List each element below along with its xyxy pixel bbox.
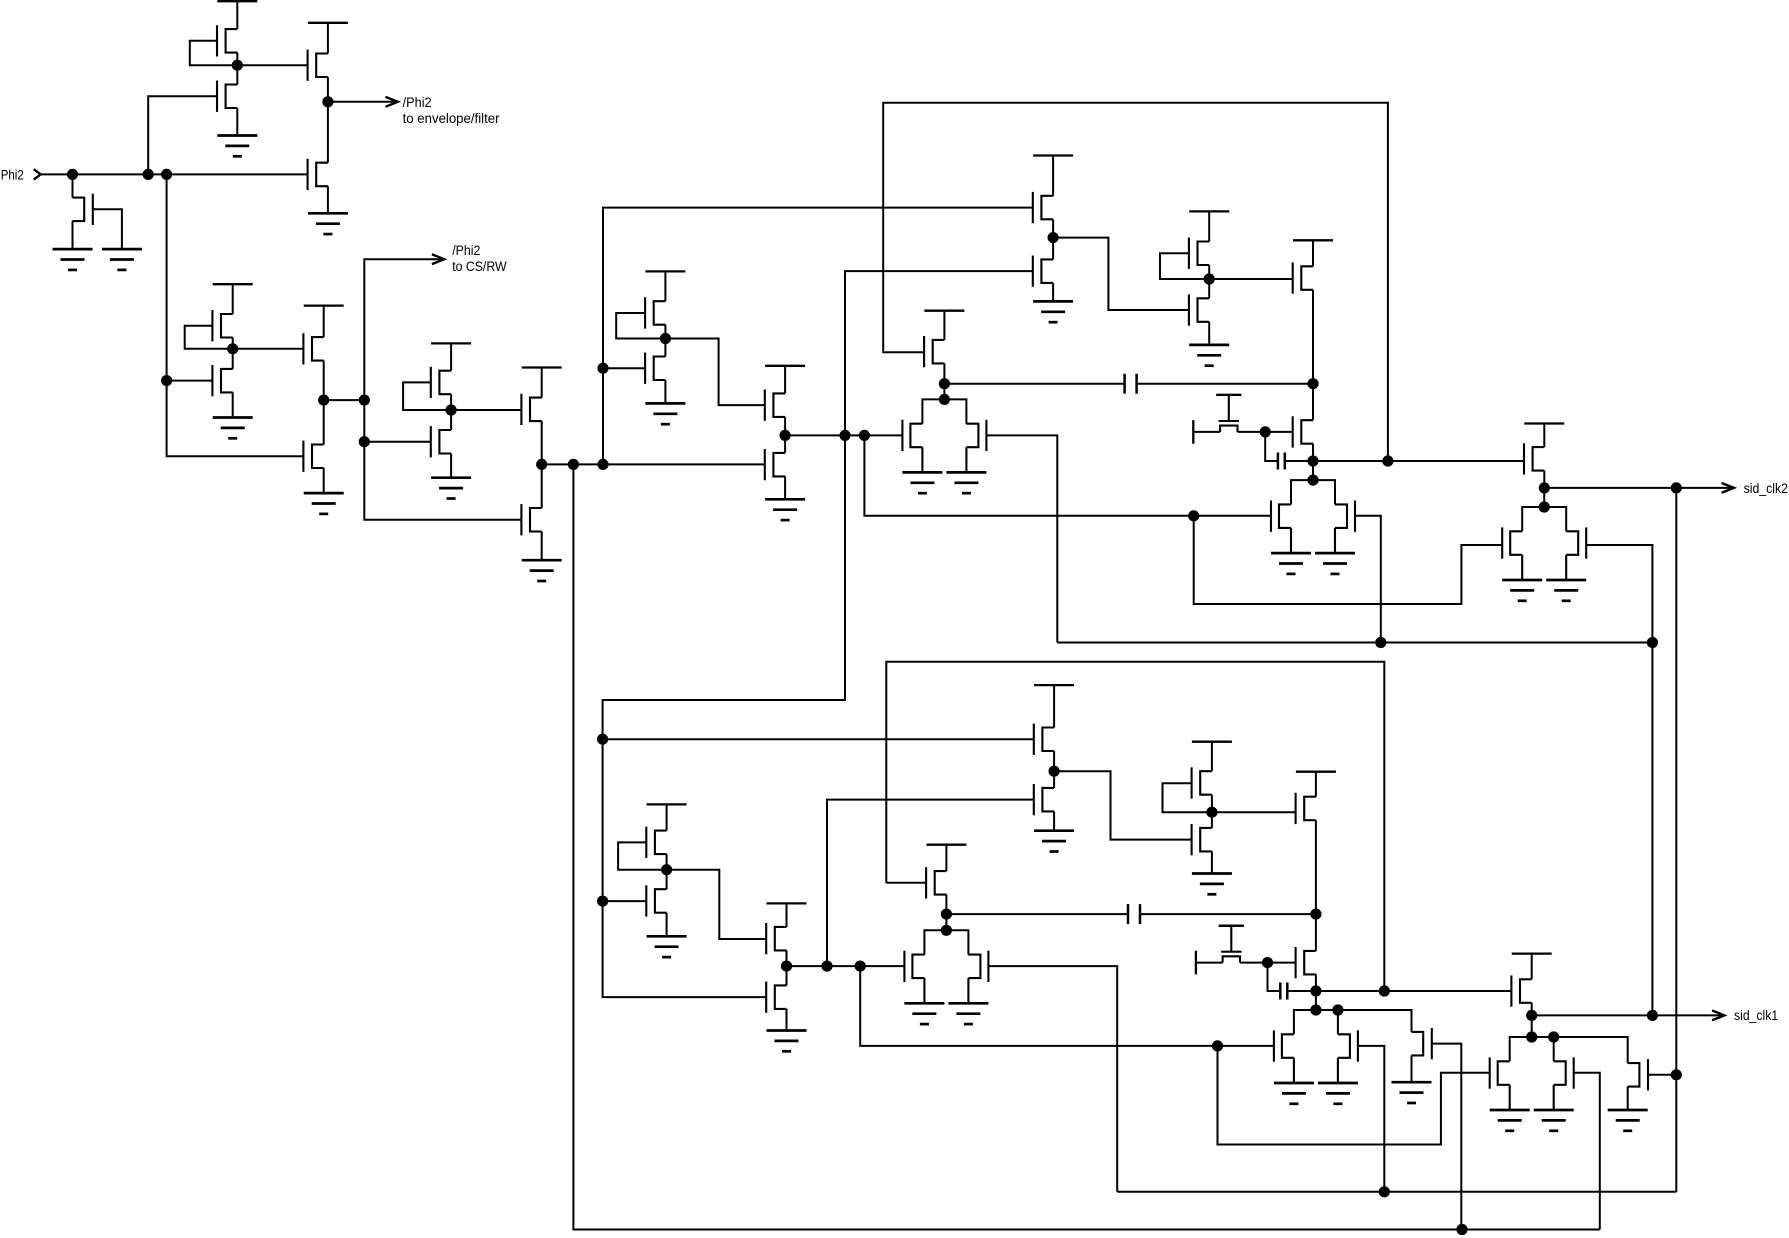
node Phi2-c: [161, 169, 172, 180]
wire pair3pL gate route: [1218, 1046, 1490, 1145]
vdd tick T31p: [1512, 952, 1552, 954]
wire T10 drain: [450, 410, 452, 430]
wire T34 source: [666, 854, 668, 870]
wire T17 drain: [784, 366, 786, 394]
wire X2p to T31p gate: [1316, 990, 1512, 992]
node pair3p ext: [1548, 1031, 1559, 1042]
node Phi2-b: [143, 169, 154, 180]
pair3' drain U-link: [1510, 1037, 1554, 1061]
node X2: [1307, 455, 1318, 466]
ground of pair2'L: [1274, 1083, 1314, 1104]
wire N1p-b riser: [860, 966, 1274, 1046]
wire T20 drain: [943, 311, 945, 340]
transistor pair3'R (right): [1554, 1057, 1574, 1110]
wire to T7 gate: [167, 380, 213, 382]
transistor T16 (depletion load): [645, 297, 665, 328]
transistor T20: [924, 336, 944, 367]
wire sid_clk2 riser down: [1675, 488, 1677, 1192]
wire T22 source: [1052, 283, 1054, 302]
svg-text:sid_clk2: sid_clk2: [1744, 481, 1788, 496]
wire T16 source: [664, 325, 666, 339]
node T16 out: [660, 333, 671, 344]
wire pair3R gate route: [1586, 545, 1652, 1015]
capacitor C2 (bootstrap): [1278, 453, 1285, 470]
wire N1 to pair1 left gate: [785, 434, 902, 436]
wire T12 drain: [450, 343, 452, 370]
node A: [232, 60, 243, 71]
wire cap1 left: [944, 383, 1124, 385]
wire T20 source: [943, 363, 945, 383]
wire sid_clk2 out: [1544, 487, 1732, 489]
transistor T21': [1034, 724, 1054, 755]
capacitor C1: [1125, 374, 1137, 394]
wire N1p to pair1p left gate: [787, 965, 905, 967]
wire T7 source: [232, 392, 234, 417]
node lower-b: [597, 896, 608, 907]
vdd tick T34: [647, 803, 687, 805]
wire pair3 stem: [1543, 488, 1545, 507]
ground T16b: [645, 403, 685, 424]
node pair2p top: [1310, 1004, 1321, 1015]
svg-text:Phi2: Phi2: [1, 167, 24, 183]
transistor T4: [217, 81, 237, 112]
node pair1 top: [939, 394, 950, 405]
gate tick T29: [1216, 394, 1241, 396]
transistor T17: [765, 390, 785, 421]
wire T21p source: [1053, 751, 1055, 771]
vdd tick T20: [924, 310, 964, 312]
wire T5 source: [72, 221, 74, 249]
wire T31p source: [1531, 1003, 1533, 1016]
transistor T22: [1033, 256, 1053, 287]
node pair2 top: [1307, 475, 1318, 486]
transistor T29' (pass): [1219, 926, 1244, 963]
wire bootstrap cap right: [1285, 460, 1313, 462]
vdd tick T24p: [1192, 741, 1232, 743]
transistor T29 (pass): [1216, 395, 1241, 432]
vdd tick T24: [1189, 210, 1229, 212]
wire T34 out to T35 gate: [667, 870, 767, 939]
wire T16b source: [664, 380, 666, 403]
transistor T19: [765, 449, 785, 480]
wire T35 drain: [786, 903, 788, 927]
node X2-b: [1382, 455, 1393, 466]
ground of pair3L: [1502, 580, 1542, 601]
wire bootstrap cap2p right: [1287, 990, 1316, 992]
wire T24 gate feedback: [1160, 253, 1209, 279]
wire T14 source to node D: [541, 421, 543, 464]
node B: [322, 96, 333, 107]
wire T16b drain: [664, 339, 666, 357]
svg-text:sid_clk1: sid_clk1: [1734, 1008, 1778, 1023]
node sid_clk1 tap: [1647, 1010, 1658, 1021]
ground of pair3R: [1546, 580, 1586, 601]
transistor T8: [303, 333, 323, 364]
wire T1 gate feedback: [190, 41, 238, 65]
node N1-a: [839, 430, 850, 441]
vdd tick T21: [1033, 154, 1073, 156]
transistor T24 (depletion load): [1189, 238, 1209, 269]
pair2 drain U-link: [1291, 480, 1335, 504]
wire T23 source: [1208, 322, 1210, 345]
transistor pair3R (right): [1566, 527, 1586, 580]
wire T14 drain: [541, 368, 543, 398]
vdd tick T2: [308, 22, 348, 24]
wire bus A: [1117, 1191, 1676, 1193]
transistor T15: [521, 504, 541, 535]
wire T17 source to N1: [784, 417, 786, 436]
ground TLE: [1392, 1082, 1432, 1103]
input chevron Phi2: [34, 169, 41, 179]
node pair2p ext: [1332, 1004, 1343, 1015]
ground of pair3'R: [1534, 1110, 1574, 1131]
transistor T1 (depletion load): [217, 25, 237, 56]
transistor T26: [1293, 262, 1313, 293]
wire T2 drain: [327, 23, 329, 54]
terminal T29': [1195, 951, 1197, 975]
transistor T26': [1296, 793, 1316, 824]
node D: [536, 459, 547, 470]
vdd tick T16: [645, 270, 685, 272]
wire T31p drain: [1531, 954, 1533, 980]
wire TE source: [1627, 1087, 1629, 1110]
transistor T10: [431, 426, 451, 457]
vdd tick T8: [304, 304, 344, 306]
node C2: [359, 395, 370, 406]
wire pair3p ext to TE drain: [1554, 1037, 1628, 1063]
node Phi2-a: [67, 169, 78, 180]
arrow sid_clk1: [1712, 1011, 1724, 1021]
wire pair3p stem: [1531, 1015, 1533, 1037]
transistor TLE: [1412, 1028, 1432, 1059]
transistor pair3L (left): [1502, 527, 1522, 580]
node W642-b: [1647, 637, 1658, 648]
wire T12 gate feedback: [403, 382, 451, 410]
capacitor C1': [1128, 904, 1140, 924]
arrow /Phi2 CS/RW: [432, 254, 444, 264]
wire T9 drain: [323, 400, 325, 444]
transistor T31: [1524, 443, 1544, 474]
transistor pair3'L (left): [1490, 1057, 1510, 1110]
transistor T6 (depletion load): [212, 310, 232, 341]
wire T35 source: [786, 950, 788, 966]
wire T26 drain: [1312, 240, 1314, 266]
node T24p out: [1206, 807, 1217, 818]
node T34 out: [661, 864, 672, 875]
wire T20p source: [945, 895, 947, 915]
node Ep: [941, 909, 952, 920]
wire T4 drain: [236, 65, 238, 84]
wire T30p source: [1315, 974, 1317, 1010]
wire T29 right lead: [1238, 431, 1294, 433]
wire T21 source: [1052, 219, 1054, 237]
wire W642: [1057, 642, 1652, 644]
node D3: [597, 459, 608, 470]
vdd tick T1: [217, 0, 257, 2]
wire lower rect: [886, 662, 1384, 991]
arrow sid_clk2: [1722, 483, 1734, 493]
wire T22 gate long riser: [603, 271, 1033, 997]
transistor T16b: [645, 353, 665, 384]
wire T15 source: [541, 532, 543, 561]
wire TE gate lead: [1648, 1074, 1676, 1076]
vdd tick T17: [765, 365, 805, 367]
ground T7: [213, 418, 253, 439]
wire T22p gate riser: [827, 800, 1034, 967]
wire T3 drain: [327, 102, 329, 163]
wire T30 source: [1312, 444, 1314, 480]
ground T23: [1189, 345, 1229, 366]
wire T19 source: [784, 476, 786, 499]
transistor pair1R (right): [966, 420, 986, 473]
arrow /Phi2 envelope: [386, 97, 398, 107]
wire T20 gate + VDD-rect loop: [883, 103, 1388, 461]
wire T34 drain: [666, 804, 668, 830]
wire node C riser to arrow: [364, 259, 443, 400]
wire pair3pR gate route: [1574, 1073, 1600, 1230]
vdd tick T26: [1293, 239, 1333, 241]
node W642-a: [1375, 637, 1386, 648]
node N1p-a: [821, 961, 832, 972]
wire to T34b gate: [603, 900, 647, 902]
wire T21/22 node to T23 gate: [1053, 238, 1189, 310]
wire T16 drain: [664, 271, 666, 301]
wire T1 source to node A: [236, 53, 238, 66]
wire T22p source: [1053, 811, 1055, 830]
transistor T2: [308, 50, 328, 81]
ground of pair1'R: [948, 1003, 988, 1024]
transistor pair2'R (right): [1338, 1030, 1358, 1083]
ground of pair1L: [902, 472, 942, 493]
vdd tick T31: [1524, 422, 1564, 424]
ground of pair2'R: [1318, 1083, 1358, 1104]
wire T34b source: [666, 913, 668, 937]
transistor T34 (depletion load): [646, 827, 666, 858]
transistor T14: [521, 394, 541, 425]
wire T34 gate feedback: [618, 842, 667, 869]
ground of pair2R: [1315, 553, 1355, 574]
vdd tick T6: [213, 283, 253, 285]
transistor T36: [766, 982, 786, 1013]
transistor T24' (depletion load): [1192, 767, 1212, 798]
transistor pair1L (left): [902, 420, 922, 473]
wire to T10 gate: [364, 441, 431, 443]
node T21/T22: [1048, 232, 1059, 243]
wire T23p source: [1211, 851, 1213, 873]
ground T34b: [647, 936, 687, 957]
ground of pair2L: [1271, 553, 1311, 574]
transistor T21: [1033, 192, 1053, 223]
wire T19 drain: [784, 435, 786, 453]
vdd tick T35: [767, 902, 807, 904]
wire T22p drain: [1053, 771, 1055, 788]
terminal T29: [1192, 420, 1194, 444]
wire cap1 right: [1137, 383, 1313, 385]
wire T36 source: [786, 1009, 788, 1031]
wire T29 left lead: [1193, 431, 1220, 433]
wire pair2R gate riser: [1355, 516, 1381, 643]
transistor T5: [73, 194, 93, 225]
wire Phi2 input: [41, 173, 308, 175]
vdd tick T14: [522, 366, 562, 368]
vdd tick T26p: [1296, 771, 1336, 773]
wire T4 source: [236, 108, 238, 136]
node pair3 top: [1539, 501, 1550, 512]
node inv3 out: [446, 404, 457, 415]
node N1p-b: [855, 961, 866, 972]
svg-text:/Phi2: /Phi2: [403, 95, 432, 110]
node W1046 tap: [1212, 1040, 1223, 1051]
wire T26p drain: [1315, 772, 1317, 797]
wire T23p drain: [1211, 812, 1213, 828]
node Fp: [1310, 909, 1321, 920]
wire T30p drain: [1315, 914, 1317, 951]
wire T3 source: [327, 186, 329, 213]
wire T6 drain: [232, 284, 234, 314]
wire N1-b riser: [864, 435, 1271, 515]
capacitor C2' (bootstrap): [1280, 983, 1287, 1000]
node D riser tap: [597, 363, 608, 374]
wire cap1p right: [1140, 913, 1316, 915]
wire T30 drain: [1312, 384, 1314, 421]
wire T31 drain: [1543, 424, 1545, 448]
ground T3: [308, 213, 348, 234]
node inv2 out: [227, 343, 238, 354]
node bus A tap: [1379, 1186, 1390, 1197]
wire T21p node to T23p gate: [1054, 771, 1192, 839]
node bus B tap: [1456, 1224, 1467, 1235]
wire T9 source: [323, 468, 325, 493]
wire T26p source: [1315, 820, 1317, 914]
svg-text:to envelope/filter: to envelope/filter: [403, 111, 500, 126]
wire T5 gate to ground: [93, 209, 122, 249]
wire T15 drain: [541, 464, 543, 508]
node N1: [780, 430, 791, 441]
transistor pair2L (left): [1271, 501, 1291, 554]
wire T24p gate feedback: [1163, 783, 1212, 812]
node pair3p top: [1526, 1031, 1537, 1042]
node T21p/T22p: [1049, 766, 1060, 777]
wire T20p drain: [945, 845, 947, 871]
ground T19: [765, 499, 805, 520]
ground T4: [217, 136, 257, 157]
wire TLE source: [1411, 1055, 1413, 1082]
transistor pair2R (right): [1335, 501, 1355, 554]
wire bootstrap cap left: [1265, 432, 1278, 461]
wire T29p right lead: [1240, 962, 1296, 964]
transistor pair1'R (right): [968, 951, 988, 1004]
node TE gate: [1671, 1069, 1682, 1080]
wire pair2pR gate riser: [1358, 1046, 1384, 1192]
transistor T9: [303, 441, 323, 472]
wire T22 drain: [1052, 238, 1054, 260]
transistor T30: [1293, 416, 1313, 447]
wire X2 to T31 gate: [1313, 460, 1524, 462]
ground T5 gate: [102, 249, 142, 270]
wire node D east: [542, 463, 765, 465]
wire pair3L gate route: [1194, 516, 1503, 604]
node X2p: [1310, 985, 1321, 996]
wire bus B: [573, 464, 1599, 1229]
wire T24p out to T26p gate: [1212, 811, 1296, 813]
vdd tick T20p: [926, 844, 966, 846]
transistor T30': [1296, 947, 1316, 978]
wire T5 drain: [72, 174, 74, 197]
wire node C down: [364, 400, 521, 520]
node N1p: [781, 961, 792, 972]
ground T9: [304, 493, 344, 514]
transistor T23': [1192, 824, 1212, 855]
ground of pair1'L: [904, 1003, 944, 1024]
wire T6 gate feedback: [185, 326, 233, 349]
wire T36 drain: [786, 966, 788, 985]
node W515 tap: [1188, 510, 1199, 521]
ground T22: [1033, 301, 1073, 322]
transistor T7: [212, 365, 232, 396]
pair2' drain U-link: [1294, 1010, 1338, 1034]
wire T26 source: [1312, 290, 1314, 384]
node lower-a: [597, 734, 608, 745]
wire T29p left lead: [1196, 962, 1223, 964]
svg-text:/Phi2: /Phi2: [452, 243, 480, 258]
pair1 drain U-link: [922, 399, 966, 423]
wire T16 out to T17 gate: [665, 339, 764, 406]
transistor pair2'L (left): [1274, 1030, 1294, 1083]
transistor T35: [766, 923, 786, 954]
node T30p gate: [1262, 957, 1273, 968]
ground T15: [522, 560, 562, 581]
wire T10 source: [450, 454, 452, 478]
wire T24p source: [1211, 795, 1213, 813]
ground of pair1R: [946, 472, 986, 493]
transistor T3: [308, 159, 328, 190]
wire sid_clk1 out: [1532, 1014, 1723, 1016]
wire T1 drain: [236, 1, 238, 29]
transistor T34b: [646, 885, 666, 916]
node sid_clk2 tap: [1671, 482, 1682, 493]
node C3: [359, 436, 370, 447]
wire inv3 out to T14 gate: [451, 409, 521, 411]
wire node A to T2 gate: [237, 64, 307, 66]
wire inv2 out to T8 gate: [233, 348, 304, 350]
wire node B output: [328, 101, 397, 103]
wire T24 drain: [1208, 211, 1210, 241]
node sid_clk2: [1539, 482, 1550, 493]
ground T36: [767, 1031, 807, 1052]
node D2: [568, 459, 579, 470]
pair1' drain U-link: [924, 930, 968, 954]
pair3 drain U-link: [1522, 507, 1566, 531]
wire TLE gate riser: [1432, 1044, 1462, 1230]
node E (cap wire): [939, 378, 950, 389]
wire cap1p left: [946, 913, 1128, 915]
wire T23 drain: [1208, 279, 1210, 298]
wire to T16b gate: [603, 367, 645, 369]
node Phi2-d: [161, 375, 172, 386]
node X2p-b: [1379, 985, 1390, 996]
wire T12 source: [450, 394, 452, 410]
wire node D riser north: [603, 208, 1033, 465]
svg-text:to CS/RW: to CS/RW: [452, 259, 506, 274]
transistor T23: [1189, 294, 1209, 325]
wire pair1 stem: [943, 384, 945, 400]
ground T10: [431, 478, 471, 499]
wire T24 source: [1208, 265, 1210, 279]
vdd tick T12: [431, 342, 471, 344]
ground of pair3'L: [1490, 1110, 1530, 1131]
wire T21p drain: [1053, 685, 1055, 727]
transistor T12 (depletion load): [431, 367, 451, 398]
